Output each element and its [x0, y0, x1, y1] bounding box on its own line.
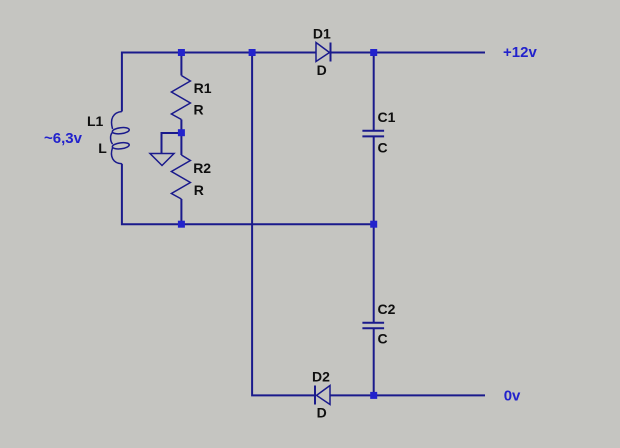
- svg-text:C: C: [378, 139, 388, 155]
- svg-text:0v: 0v: [504, 387, 521, 404]
- svg-text:D1: D1: [313, 26, 331, 42]
- svg-text:D: D: [317, 62, 327, 78]
- svg-text:D: D: [317, 405, 327, 421]
- svg-text:L1: L1: [87, 113, 104, 129]
- svg-text:R1: R1: [194, 80, 212, 96]
- svg-text:C: C: [378, 331, 388, 347]
- svg-text:R: R: [194, 101, 204, 117]
- svg-text:C2: C2: [378, 301, 396, 317]
- svg-text:R: R: [194, 182, 204, 198]
- svg-text:~6,3v: ~6,3v: [44, 130, 83, 147]
- svg-text:D2: D2: [312, 368, 330, 384]
- svg-text:L: L: [98, 140, 107, 156]
- svg-text:C1: C1: [378, 109, 396, 125]
- svg-text:R2: R2: [193, 160, 211, 176]
- svg-text:+12v: +12v: [503, 44, 537, 61]
